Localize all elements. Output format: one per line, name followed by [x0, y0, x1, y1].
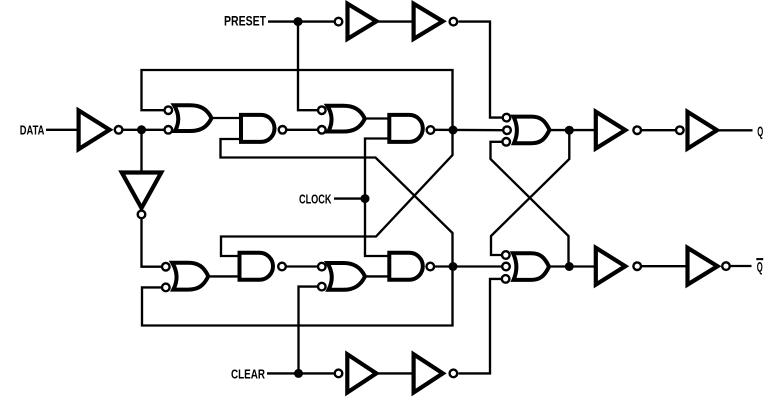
svg-text:CLEAR: CLEAR: [231, 366, 265, 381]
svg-text:DATA: DATA: [20, 122, 45, 137]
svg-text:Q: Q: [757, 259, 763, 274]
svg-text:PRESET: PRESET: [224, 13, 266, 28]
svg-text:Q: Q: [757, 124, 763, 139]
svg-text:CLOCK: CLOCK: [299, 192, 332, 207]
